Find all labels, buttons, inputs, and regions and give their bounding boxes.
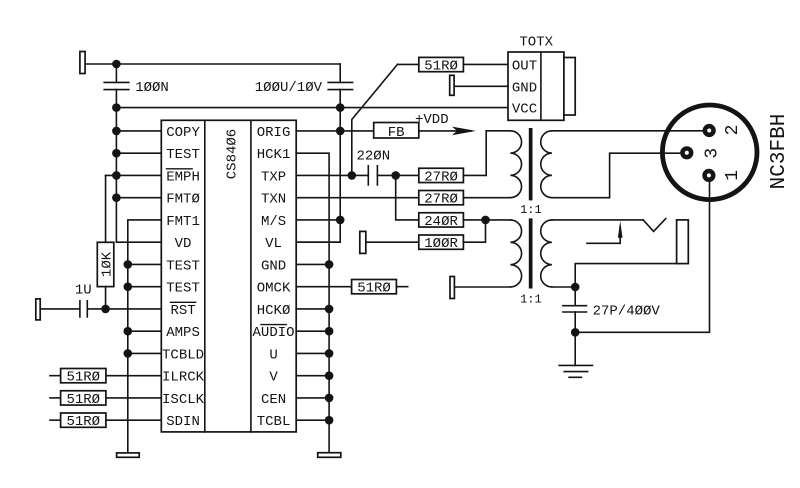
junction TEST3 gnd	[124, 282, 133, 291]
svg-text:24ØR: 24ØR	[424, 214, 458, 230]
wire to earth ground	[574, 332, 576, 365]
wire COPY pin	[116, 130, 161, 132]
svg-text:NC3FBH: NC3FBH	[768, 114, 791, 190]
junction AUDIO gnd	[325, 327, 334, 336]
ground bar right	[318, 453, 341, 458]
wire ORIG to FB	[296, 130, 374, 132]
svg-text:51RØ: 51RØ	[424, 58, 458, 74]
svg-text:TEST: TEST	[166, 258, 200, 274]
svg-text:1:1: 1:1	[520, 203, 542, 217]
wire TEST pin 1	[116, 152, 161, 154]
junction U gnd	[325, 349, 334, 358]
wire FMT1 to ground	[128, 220, 162, 453]
junction EMPH to VDD	[112, 171, 121, 180]
wire HCK1 down ground bus	[296, 153, 329, 453]
svg-text:U: U	[269, 347, 277, 363]
overline AUDIO	[261, 324, 286, 326]
wire T2 sec bottom	[552, 286, 575, 288]
svg-text:1ØØR: 1ØØR	[424, 236, 458, 252]
svg-text:+VDD: +VDD	[415, 112, 449, 128]
wire FB to +VDD arrow	[419, 130, 471, 132]
wire FMT0 pin	[116, 197, 161, 199]
resistor R8 240R	[419, 213, 464, 230]
wire into C5	[574, 287, 576, 306]
wire into C2	[339, 64, 341, 82]
transformer T1 core	[529, 128, 533, 200]
svg-text:OUT: OUT	[512, 58, 537, 74]
svg-text:CS84Ø6: CS84Ø6	[224, 129, 240, 179]
wire TCBL pin to ground bus	[296, 419, 329, 421]
svg-text:VD: VD	[175, 236, 192, 252]
XLR connector J1 NC3FBH outline	[662, 105, 757, 200]
terminal P1 (+VDD input)	[80, 52, 85, 74]
resistor R6 51R0	[419, 57, 464, 74]
svg-text:VCC: VCC	[512, 102, 537, 118]
wire jack return	[575, 264, 676, 287]
svg-text:COPY: COPY	[166, 125, 200, 141]
resistor R7 27R0	[419, 191, 464, 208]
junction M/S node	[336, 216, 345, 225]
wire R10 open stub	[396, 286, 407, 288]
junction TXP node	[348, 171, 357, 180]
wire R7 to T1 primary bottom	[463, 197, 510, 199]
wire R1 bottom to RST	[105, 287, 107, 309]
junction GND gnd	[325, 260, 334, 269]
junction FMT0 to VDD	[112, 193, 121, 202]
svg-text:TCBLD: TCBLD	[162, 347, 204, 363]
svg-text:ILRCK: ILRCK	[162, 370, 205, 386]
earth ground	[559, 365, 592, 377]
wire VDD rail to TOTX VCC	[116, 107, 508, 109]
svg-text:TXP: TXP	[261, 169, 286, 185]
wire TXP pin to C4	[296, 174, 368, 176]
wire T1 sec bottom to XLR pin3	[552, 153, 681, 198]
IC U1 CS8406 body	[161, 120, 296, 432]
transformer T2 core	[529, 218, 533, 288]
junction TEST1 to VDD	[112, 149, 121, 158]
junction C2 to VDD rail	[336, 103, 345, 112]
svg-text:3: 3	[703, 148, 723, 159]
svg-text:1U: 1U	[75, 282, 92, 298]
svg-text:1ØK: 1ØK	[99, 251, 115, 277]
capacitor C4 220N	[368, 166, 377, 185]
svg-text:51RØ: 51RØ	[66, 392, 100, 408]
svg-text:27RØ: 27RØ	[424, 192, 458, 208]
wire P2 to C3	[40, 308, 79, 310]
overline EMPH	[166, 168, 192, 170]
wire R3 left stub	[50, 397, 61, 399]
XLR pin 1	[702, 169, 715, 182]
svg-text:22ØN: 22ØN	[356, 148, 390, 164]
wire R2 left stub	[50, 375, 61, 377]
junction COPY to VDD	[112, 127, 121, 136]
svg-text:27RØ: 27RØ	[424, 169, 458, 185]
wire VDD vertical to VD pin	[116, 90, 161, 243]
resistor R4 51R0	[61, 413, 106, 430]
junction VDD rail	[112, 103, 121, 112]
wire VL pin	[296, 241, 340, 243]
wire R8 to T2 primary top	[463, 219, 485, 221]
wire TEST pin 3	[128, 286, 162, 288]
terminal P3	[360, 231, 366, 253]
junction TEST2 gnd	[124, 260, 133, 269]
wire R4 left stub	[50, 419, 61, 421]
inductor winding T2 secondary	[541, 220, 552, 287]
svg-text:V: V	[269, 370, 278, 386]
svg-text:27P/4ØØV: 27P/4ØØV	[593, 303, 661, 319]
svg-text:FMTØ: FMTØ	[166, 192, 200, 208]
svg-text:TEST: TEST	[166, 147, 200, 163]
capacitor C1 100N	[104, 82, 129, 89]
jack switch contact	[643, 219, 666, 232]
svg-text:VL: VL	[265, 236, 282, 252]
wire U pin to ground bus	[296, 352, 329, 354]
wire HCK0 pin to ground bus	[296, 308, 329, 310]
junction at C1 top	[112, 60, 121, 69]
wire GND pin to ground bus	[296, 263, 329, 265]
wire EMPH pin	[106, 174, 162, 176]
wire XLR pin1 to gnd node	[575, 182, 709, 333]
wire into T2 primary	[486, 219, 511, 221]
svg-text:1ØØU/1ØV: 1ØØU/1ØV	[255, 80, 323, 96]
wire diagonal TXP to R6	[352, 64, 398, 175]
resistor R10 51R0	[352, 280, 397, 297]
XLR pin 2	[703, 124, 716, 137]
wire T2 sec top to jack	[552, 219, 643, 221]
terminal P4 (TOTX gnd)	[450, 75, 454, 95]
junction TCBL gnd	[325, 416, 334, 425]
inductor winding T1 primary	[510, 131, 521, 198]
wire into C1	[115, 64, 117, 82]
wire R4 to IC	[106, 419, 161, 421]
wire M/S pin	[296, 219, 340, 221]
svg-text:51RØ: 51RØ	[66, 370, 100, 386]
wire P4 to TOTX GND	[454, 85, 508, 87]
wire top +VDD rail	[85, 63, 340, 65]
resistor R3 51R0	[61, 391, 106, 408]
svg-text:OMCK: OMCK	[257, 281, 291, 297]
resistor R2 51R0	[61, 369, 106, 386]
jack sleeve tab	[677, 220, 689, 264]
resistor R9 100R	[419, 235, 464, 252]
junction V gnd	[325, 371, 334, 380]
wire R6 to TOTX OUT	[463, 63, 508, 65]
terminal P5	[450, 277, 454, 299]
junction HCK0 gnd	[325, 305, 334, 314]
wire AMPS pin	[128, 330, 162, 332]
svg-text:M/S: M/S	[261, 214, 286, 230]
svg-text:51RØ: 51RØ	[357, 281, 391, 297]
wire T1 sec top to XLR pin2	[552, 130, 703, 132]
junction TCBLD gnd	[124, 349, 133, 358]
capacitor C2 100U/10V	[328, 82, 352, 89]
wire TXN pin to R7	[296, 197, 419, 199]
svg-text:AMPS: AMPS	[166, 325, 200, 341]
wire to R6 left	[398, 63, 419, 65]
wire TCBLD pin	[128, 352, 162, 354]
junction CEN gnd	[325, 394, 334, 403]
wire TXP node down to R8	[396, 175, 419, 220]
svg-text:GND: GND	[512, 80, 537, 96]
arrow +VDD	[452, 127, 476, 136]
junction T2 sec bottom node	[571, 283, 580, 292]
overline RST	[171, 301, 196, 303]
resistor R5 27R0	[419, 168, 464, 185]
wire P5 to T2 primary bottom	[454, 286, 510, 288]
XLR pin 3	[680, 146, 693, 159]
svg-text:RST: RST	[170, 303, 195, 319]
resistor R1 10K	[97, 242, 115, 286]
wire R2 to IC	[106, 375, 161, 377]
svg-text:FMT1: FMT1	[166, 214, 200, 230]
junction R5/R7 node	[391, 171, 400, 180]
svg-text:1:1: 1:1	[520, 293, 542, 307]
junction C5 gnd node	[571, 328, 580, 337]
wire R5 to T1 primary top	[463, 131, 510, 176]
svg-text:51RØ: 51RØ	[66, 414, 100, 430]
ferrite bead FB1	[374, 123, 419, 141]
jack tip contact arrow	[587, 221, 623, 244]
svg-text:HCKØ: HCKØ	[257, 303, 291, 319]
svg-text:HCK1: HCK1	[257, 147, 291, 163]
svg-text:ISCLK: ISCLK	[162, 392, 205, 408]
svg-text:ORIG: ORIG	[257, 125, 291, 141]
wire C4 to R5	[377, 174, 418, 176]
optical transmitter TOTX body	[508, 52, 575, 120]
wire V pin to ground bus	[296, 375, 329, 377]
wire AUDIO pin to ground bus	[296, 330, 329, 332]
svg-text:1ØØN: 1ØØN	[135, 80, 169, 96]
svg-text:TXN: TXN	[261, 192, 286, 208]
svg-text:TOTX: TOTX	[519, 34, 553, 50]
wire R3 to IC	[106, 397, 161, 399]
svg-text:TEST: TEST	[166, 281, 200, 297]
svg-text:1: 1	[723, 170, 743, 181]
wire EMPH to R1 top	[105, 175, 107, 242]
wire R9 up to T2 primary top	[463, 220, 485, 242]
capacitor C3 1U	[80, 301, 87, 317]
terminal P2 (reset input)	[36, 299, 40, 320]
inductor winding T2 primary	[510, 220, 521, 287]
junction AMPS gnd	[124, 327, 133, 336]
wire from C2 down to VL pin	[296, 90, 340, 243]
junction ORIG node	[336, 127, 345, 136]
junction RST node	[101, 305, 110, 314]
capacitor C5 27P/400V	[563, 306, 587, 312]
wire CEN pin to ground bus	[296, 397, 329, 399]
wire P3 to R9	[366, 241, 419, 243]
inductor winding T1 secondary	[541, 131, 552, 198]
svg-text:EMPH: EMPH	[166, 169, 200, 185]
wire TEST pin 2	[128, 263, 162, 265]
svg-text:CEN: CEN	[261, 392, 286, 408]
wire C3 to RST pin	[88, 308, 161, 310]
wire OMCK to R10	[296, 286, 351, 288]
svg-text:SDIN: SDIN	[166, 414, 200, 430]
svg-text:FB: FB	[388, 125, 405, 141]
svg-text:GND: GND	[261, 258, 286, 274]
wire C5 bottom	[574, 312, 576, 332]
svg-text:AUDIO: AUDIO	[253, 325, 295, 341]
svg-text:TCBL: TCBL	[257, 414, 291, 430]
svg-text:2: 2	[723, 125, 743, 136]
ground bar left	[117, 453, 140, 457]
junction T2 primary node	[481, 216, 490, 225]
